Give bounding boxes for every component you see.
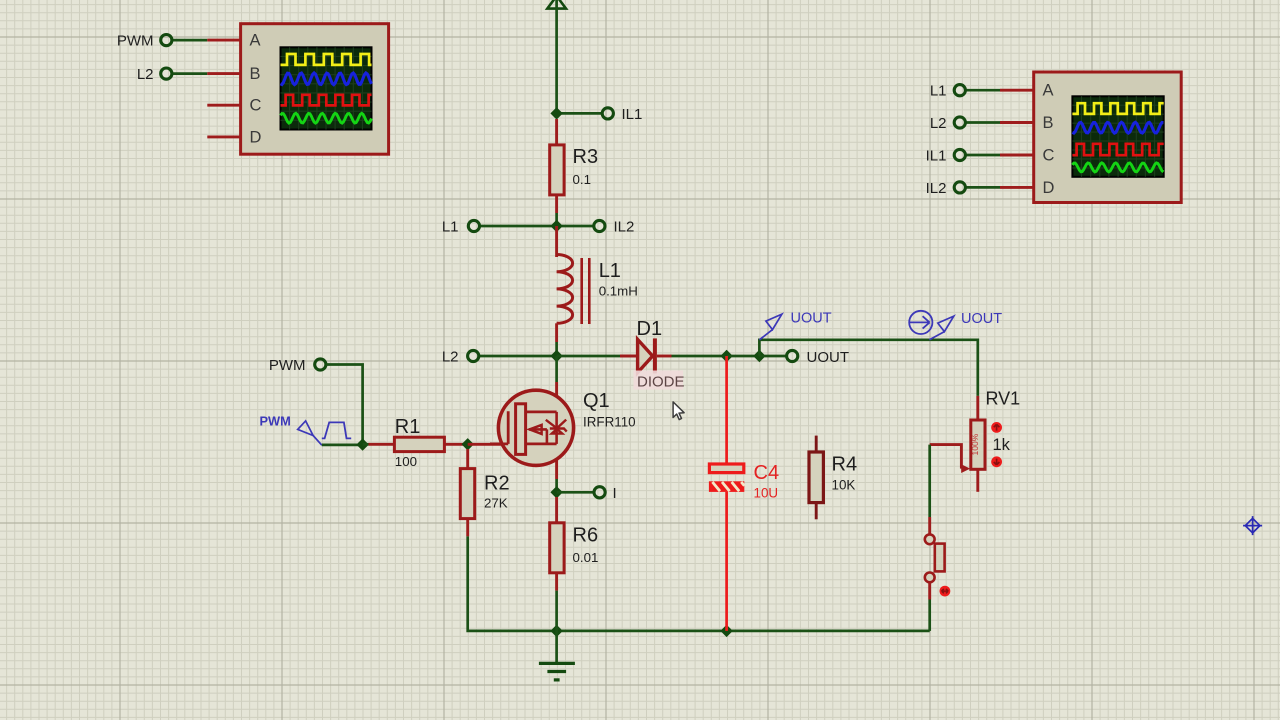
- terminal L1: [954, 85, 965, 96]
- pin R1 right (red): [444, 443, 467, 446]
- wire terminal L2 to node: [479, 355, 556, 358]
- power arrow (supply): [547, 0, 566, 9]
- terminal UOUT: [787, 350, 798, 361]
- pin R3 top (red): [555, 119, 558, 146]
- resistor R3: [550, 145, 564, 195]
- pin R6 bottom (red): [555, 573, 558, 591]
- svg-text:A: A: [250, 32, 261, 50]
- svg-text:R3: R3: [573, 146, 599, 168]
- svg-text:0.1: 0.1: [573, 172, 592, 187]
- scope left trace C red: [281, 95, 372, 106]
- svg-text:IL2: IL2: [614, 219, 635, 236]
- node L2 junction: [550, 350, 562, 362]
- scope right trace A yellow: [1072, 103, 1163, 114]
- pin R6 top (red): [555, 497, 558, 523]
- switch toggle marker: [940, 586, 951, 597]
- wire node I to terminal: [557, 491, 594, 494]
- potentiometer RV1 body: [971, 420, 985, 469]
- scope right trace B blue: [1072, 122, 1163, 133]
- switch SW1 lever: [935, 544, 945, 572]
- svg-text:R4: R4: [832, 454, 858, 476]
- wire L1 to scope (green): [966, 89, 1000, 92]
- svg-text:B: B: [1043, 114, 1054, 132]
- wire L2 to scope B (green): [172, 72, 207, 75]
- svg-text:L1: L1: [599, 260, 621, 282]
- wire node L2 to diode: [557, 355, 620, 358]
- terminal L2 (scope B): [161, 68, 172, 79]
- svg-text:IL2: IL2: [926, 180, 947, 197]
- wire node to C4 (bright red): [725, 356, 728, 464]
- wire node to R1: [363, 443, 369, 446]
- svg-text:IRFR110: IRFR110: [583, 415, 636, 430]
- Q1 internal symbol: [490, 411, 508, 444]
- RV1 wiper arrow: [961, 464, 970, 473]
- terminal IL2: [954, 182, 965, 193]
- svg-text:D1: D1: [637, 318, 663, 340]
- wire R6 to rail: [555, 591, 558, 631]
- resistor R4: [809, 452, 823, 503]
- svg-text:D: D: [250, 128, 262, 146]
- terminal IL1: [954, 149, 965, 160]
- svg-text:L2: L2: [137, 66, 154, 83]
- terminal PWM (scope A): [161, 35, 172, 46]
- current probe (circle with arrow): [909, 311, 932, 334]
- probe UOUT 2 (voltage probe arrow): [929, 316, 953, 340]
- rail junction at ground: [550, 625, 562, 637]
- svg-text:UOUT: UOUT: [807, 349, 850, 366]
- terminal L1: [468, 220, 479, 231]
- svg-text:IL1: IL1: [926, 148, 947, 165]
- pin R1 left (red): [369, 443, 395, 446]
- RV1 wiper wire: [930, 445, 962, 469]
- svg-text:L1: L1: [930, 83, 947, 100]
- terminal L2: [468, 350, 479, 361]
- terminal L2: [954, 117, 965, 128]
- scope left trace B blue: [281, 73, 372, 85]
- ground rail wire: [468, 536, 930, 631]
- wire IL1 to scope (green): [966, 154, 1000, 157]
- svg-text:UOUT: UOUT: [791, 311, 832, 327]
- wire diode to node C4: [672, 355, 727, 358]
- wire node to terminal UOUT: [759, 355, 786, 358]
- resistor R6: [550, 523, 564, 573]
- PWM generator waveform glyph: [322, 422, 351, 438]
- svg-text:L1: L1: [442, 219, 459, 236]
- pin C wire (left scope): [207, 104, 240, 107]
- wire PWM to scope A (green): [172, 39, 207, 42]
- RV1 down button: [991, 456, 1002, 467]
- wire L1 to node L2: [555, 342, 558, 356]
- wire R3 to node IL2: [555, 213, 558, 226]
- pin wire IL2 (red): [1000, 186, 1034, 189]
- svg-text:27K: 27K: [484, 496, 508, 511]
- wire node to terminal IL2: [557, 225, 594, 228]
- svg-text:1k: 1k: [993, 436, 1011, 454]
- terminal IL1: [602, 108, 613, 119]
- gate node junction 1: [356, 438, 368, 450]
- oscilloscope right screen: [1072, 96, 1163, 177]
- svg-text:IL1: IL1: [622, 106, 643, 123]
- node UOUT junction: [753, 350, 765, 362]
- svg-text:D: D: [1043, 179, 1055, 197]
- wire node to terminal IL1: [557, 112, 602, 115]
- svg-text:PWM: PWM: [260, 414, 291, 429]
- svg-text:L2: L2: [930, 115, 947, 132]
- PWM generator symbol: [298, 421, 313, 436]
- svg-text:R1: R1: [395, 416, 421, 438]
- svg-text:C: C: [250, 97, 262, 115]
- wire node L2 to Q1 drain: [555, 356, 558, 382]
- pin RV1 top (red): [976, 396, 979, 421]
- svg-text:0.1mH: 0.1mH: [599, 284, 638, 299]
- pin B wire (red): [207, 72, 240, 75]
- svg-text:R2: R2: [484, 473, 510, 495]
- wire Q1 source to node I: [555, 479, 558, 492]
- wire UOUT branch to RV1: [759, 340, 977, 396]
- switch SW1 terminal top: [925, 534, 935, 544]
- resistor R1: [394, 437, 444, 451]
- wire supply to node IL1: [555, 0, 558, 113]
- wire switch to ground rail: [928, 600, 931, 631]
- oscilloscope right body: [1034, 72, 1182, 203]
- scope right trace D green: [1072, 163, 1163, 172]
- scope left trace D green: [281, 113, 372, 123]
- svg-text:Q1: Q1: [583, 390, 610, 412]
- svg-text:10K: 10K: [832, 478, 856, 493]
- node IL2 junction: [550, 220, 562, 232]
- pin Q1 drain (red): [555, 382, 558, 412]
- origin marker (blue crosshair): [1243, 516, 1262, 535]
- inductor L1: [557, 255, 573, 324]
- wire IL2 to scope (green): [966, 186, 1000, 189]
- pin D wire (left scope): [207, 135, 240, 138]
- pin wire L2 (red): [1000, 121, 1034, 124]
- node IL1 junction: [550, 107, 562, 119]
- wire PWM terminal to gate node: [326, 365, 363, 445]
- scope right trace C red: [1072, 144, 1163, 155]
- svg-text:100: 100: [395, 454, 417, 469]
- svg-text:0.01: 0.01: [573, 550, 599, 565]
- pin R2 bottom (red): [466, 519, 469, 537]
- svg-text:PWM: PWM: [117, 33, 154, 50]
- wire node C4 to node UOUT: [727, 355, 760, 358]
- svg-text:DIODE: DIODE: [637, 374, 685, 391]
- wire wiper to switch: [928, 445, 931, 517]
- scope left trace A yellow: [281, 54, 372, 65]
- pin R3 bottom (red): [555, 195, 558, 213]
- svg-text:100%: 100%: [970, 433, 980, 455]
- svg-text:R6: R6: [573, 525, 599, 547]
- svg-text:I: I: [613, 485, 617, 502]
- wire terminal L1 to node: [480, 225, 557, 228]
- pin R4 bottom (dark red): [815, 502, 818, 519]
- RV1 up button: [991, 422, 1002, 433]
- probe UOUT (voltage probe arrow): [759, 314, 782, 340]
- wire L2 to scope (green): [966, 121, 1000, 124]
- node C4 junction: [720, 350, 732, 362]
- resistor R2: [460, 469, 474, 519]
- capacitor C4 bottom plate (polarized): [709, 481, 744, 492]
- svg-text:C: C: [1043, 147, 1055, 165]
- svg-text:UOUT: UOUT: [961, 311, 1002, 327]
- capacitor C4 top plate: [709, 464, 743, 473]
- ground: [555, 631, 558, 663]
- pin R4 top (dark red): [815, 436, 818, 453]
- svg-text:PWM: PWM: [269, 357, 306, 374]
- mouse cursor: [673, 402, 684, 420]
- pin L1 top (red): [555, 226, 558, 257]
- switch SW1 terminal bottom: [925, 573, 935, 583]
- pin wire IL1 (red): [1000, 154, 1034, 157]
- oscilloscope left screen: [281, 47, 372, 129]
- wire C4 to rail (bright red): [725, 492, 728, 631]
- svg-text:RV1: RV1: [986, 389, 1021, 409]
- pin R2 top (red): [466, 449, 469, 469]
- terminal IL2: [594, 220, 605, 231]
- pin Q1 source (red): [555, 444, 558, 479]
- Q1 body diode: [552, 429, 562, 434]
- svg-text:C4: C4: [754, 462, 780, 484]
- wire gate node to Q1 gate (red): [468, 443, 506, 446]
- svg-text:10U: 10U: [754, 486, 779, 501]
- pin RV1 bottom stub (red): [976, 470, 979, 492]
- pin D1 anode (red): [620, 355, 638, 358]
- transistor Q1 body: [498, 390, 573, 465]
- svg-text:A: A: [1043, 82, 1054, 100]
- pin D1 cathode (red): [657, 355, 672, 358]
- node I junction: [550, 486, 562, 498]
- oscilloscope left body: [241, 24, 389, 155]
- pin switch bottom (red): [928, 582, 931, 599]
- rail junction at C4: [720, 625, 732, 637]
- terminal PWM (gate drive): [315, 359, 326, 370]
- svg-text:L2: L2: [442, 349, 459, 366]
- pin switch top (red): [928, 517, 931, 535]
- terminal I: [594, 487, 605, 498]
- pin A wire (red): [207, 39, 240, 42]
- svg-text:B: B: [250, 65, 261, 83]
- DIODE text highlight: [634, 371, 684, 390]
- gate node junction 2: [462, 438, 474, 450]
- wire generator to gate node: [322, 444, 363, 447]
- pin wire L1 (red): [1000, 89, 1034, 92]
- pin L1 bottom (red): [555, 323, 558, 342]
